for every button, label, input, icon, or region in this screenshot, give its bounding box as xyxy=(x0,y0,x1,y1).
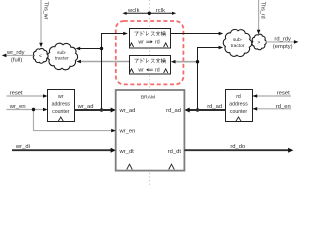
svg-text:rd_ad: rd_ad xyxy=(207,104,222,110)
svg-text:rd_dt: rd_dt xyxy=(168,149,182,155)
svg-text:wr_ad: wr_ad xyxy=(119,108,136,114)
svg-text:counter: counter xyxy=(230,109,248,115)
svg-text:rd_rdy: rd_rdy xyxy=(274,37,291,43)
rd address counter xyxy=(226,90,253,122)
svg-text:rd_ad: rd_ad xyxy=(166,108,181,114)
wire wr_ad branch to exchange + subtractor xyxy=(102,34,126,111)
svg-text:wr_rdy: wr_rdy xyxy=(6,50,25,56)
wire wr_di data bus xyxy=(12,149,114,151)
svg-text:<: < xyxy=(39,54,42,60)
address exchange block U1 wr->rd xyxy=(129,29,170,49)
wire reset (write side) xyxy=(7,95,47,97)
svg-text:rd_do: rd_do xyxy=(230,144,245,150)
svg-text:BRAM: BRAM xyxy=(141,94,155,100)
svg-text:wr: wr xyxy=(58,94,64,100)
wire rd_rdy output xyxy=(266,41,297,43)
svg-text:sub-: sub- xyxy=(57,50,67,56)
svg-text:wclk: wclk xyxy=(127,8,140,14)
BRAM block xyxy=(116,90,185,171)
svg-text:Ths_wr: Ths_wr xyxy=(42,2,48,20)
svg-text:wr: wr xyxy=(138,40,144,46)
svg-text:address: address xyxy=(229,102,248,108)
comparator &gt; (empty detect) xyxy=(252,34,266,50)
wire subtractor top input xyxy=(78,48,102,50)
svg-text:Ths_rd: Ths_rd xyxy=(259,2,265,19)
wire rd_ad bus xyxy=(187,109,226,111)
svg-text:wr_en: wr_en xyxy=(119,129,136,135)
wire rd_en xyxy=(253,108,291,110)
svg-text:wr_di: wr_di xyxy=(15,144,30,150)
wire reset (read side) xyxy=(253,95,291,97)
svg-text:reset: reset xyxy=(10,90,23,96)
wclk / rclk domain arrow xyxy=(124,12,174,14)
svg-text:rd: rd xyxy=(155,40,160,46)
svg-text:wr: wr xyxy=(138,68,144,74)
wire rd_ad into exchange block xyxy=(173,61,198,63)
svg-text:reset: reset xyxy=(277,90,290,96)
subtractor (write side) xyxy=(47,43,77,70)
svg-text:address: address xyxy=(52,102,71,108)
wire Ths_wr threshold input xyxy=(40,0,42,44)
wire wr_rdy output xyxy=(4,54,34,56)
wire synced rd address to subtractor xyxy=(79,61,130,63)
comparator &lt; (full detect) xyxy=(33,48,48,63)
clock domain boundary dotted line xyxy=(149,0,151,185)
svg-text:sub-: sub- xyxy=(233,37,243,43)
svg-text:(empty): (empty) xyxy=(273,44,293,50)
svg-text:(full): (full) xyxy=(11,57,22,63)
subtractor (read side) xyxy=(223,29,251,56)
svg-text:wr_en: wr_en xyxy=(9,104,26,110)
wire rd_do data bus xyxy=(184,149,291,151)
svg-text:rd: rd xyxy=(155,68,160,74)
svg-text:rd: rd xyxy=(236,94,241,100)
svg-text:counter: counter xyxy=(52,109,70,115)
svg-text:tracter: tracter xyxy=(55,56,69,62)
wire rd_ad branch to exchange + subtractor xyxy=(198,48,222,111)
svg-text:wr_ad: wr_ad xyxy=(77,104,94,110)
svg-text:tractor: tractor xyxy=(231,43,245,49)
wire wr_ad bus xyxy=(75,109,114,111)
clock-domain-crossing region (red dashed box) xyxy=(116,21,184,84)
wire wr_en xyxy=(7,110,114,131)
svg-text:rclk: rclk xyxy=(156,8,165,14)
address exchange block U2 wr<-rd xyxy=(129,56,170,75)
svg-text:>: > xyxy=(257,40,260,46)
wire synced wr address to read subtractor xyxy=(171,33,221,35)
wr address counter xyxy=(48,90,75,122)
svg-text:rd_en: rd_en xyxy=(276,104,291,110)
wire Ths_rd threshold input xyxy=(258,0,260,31)
svg-text:wr_dt: wr_dt xyxy=(119,149,135,155)
